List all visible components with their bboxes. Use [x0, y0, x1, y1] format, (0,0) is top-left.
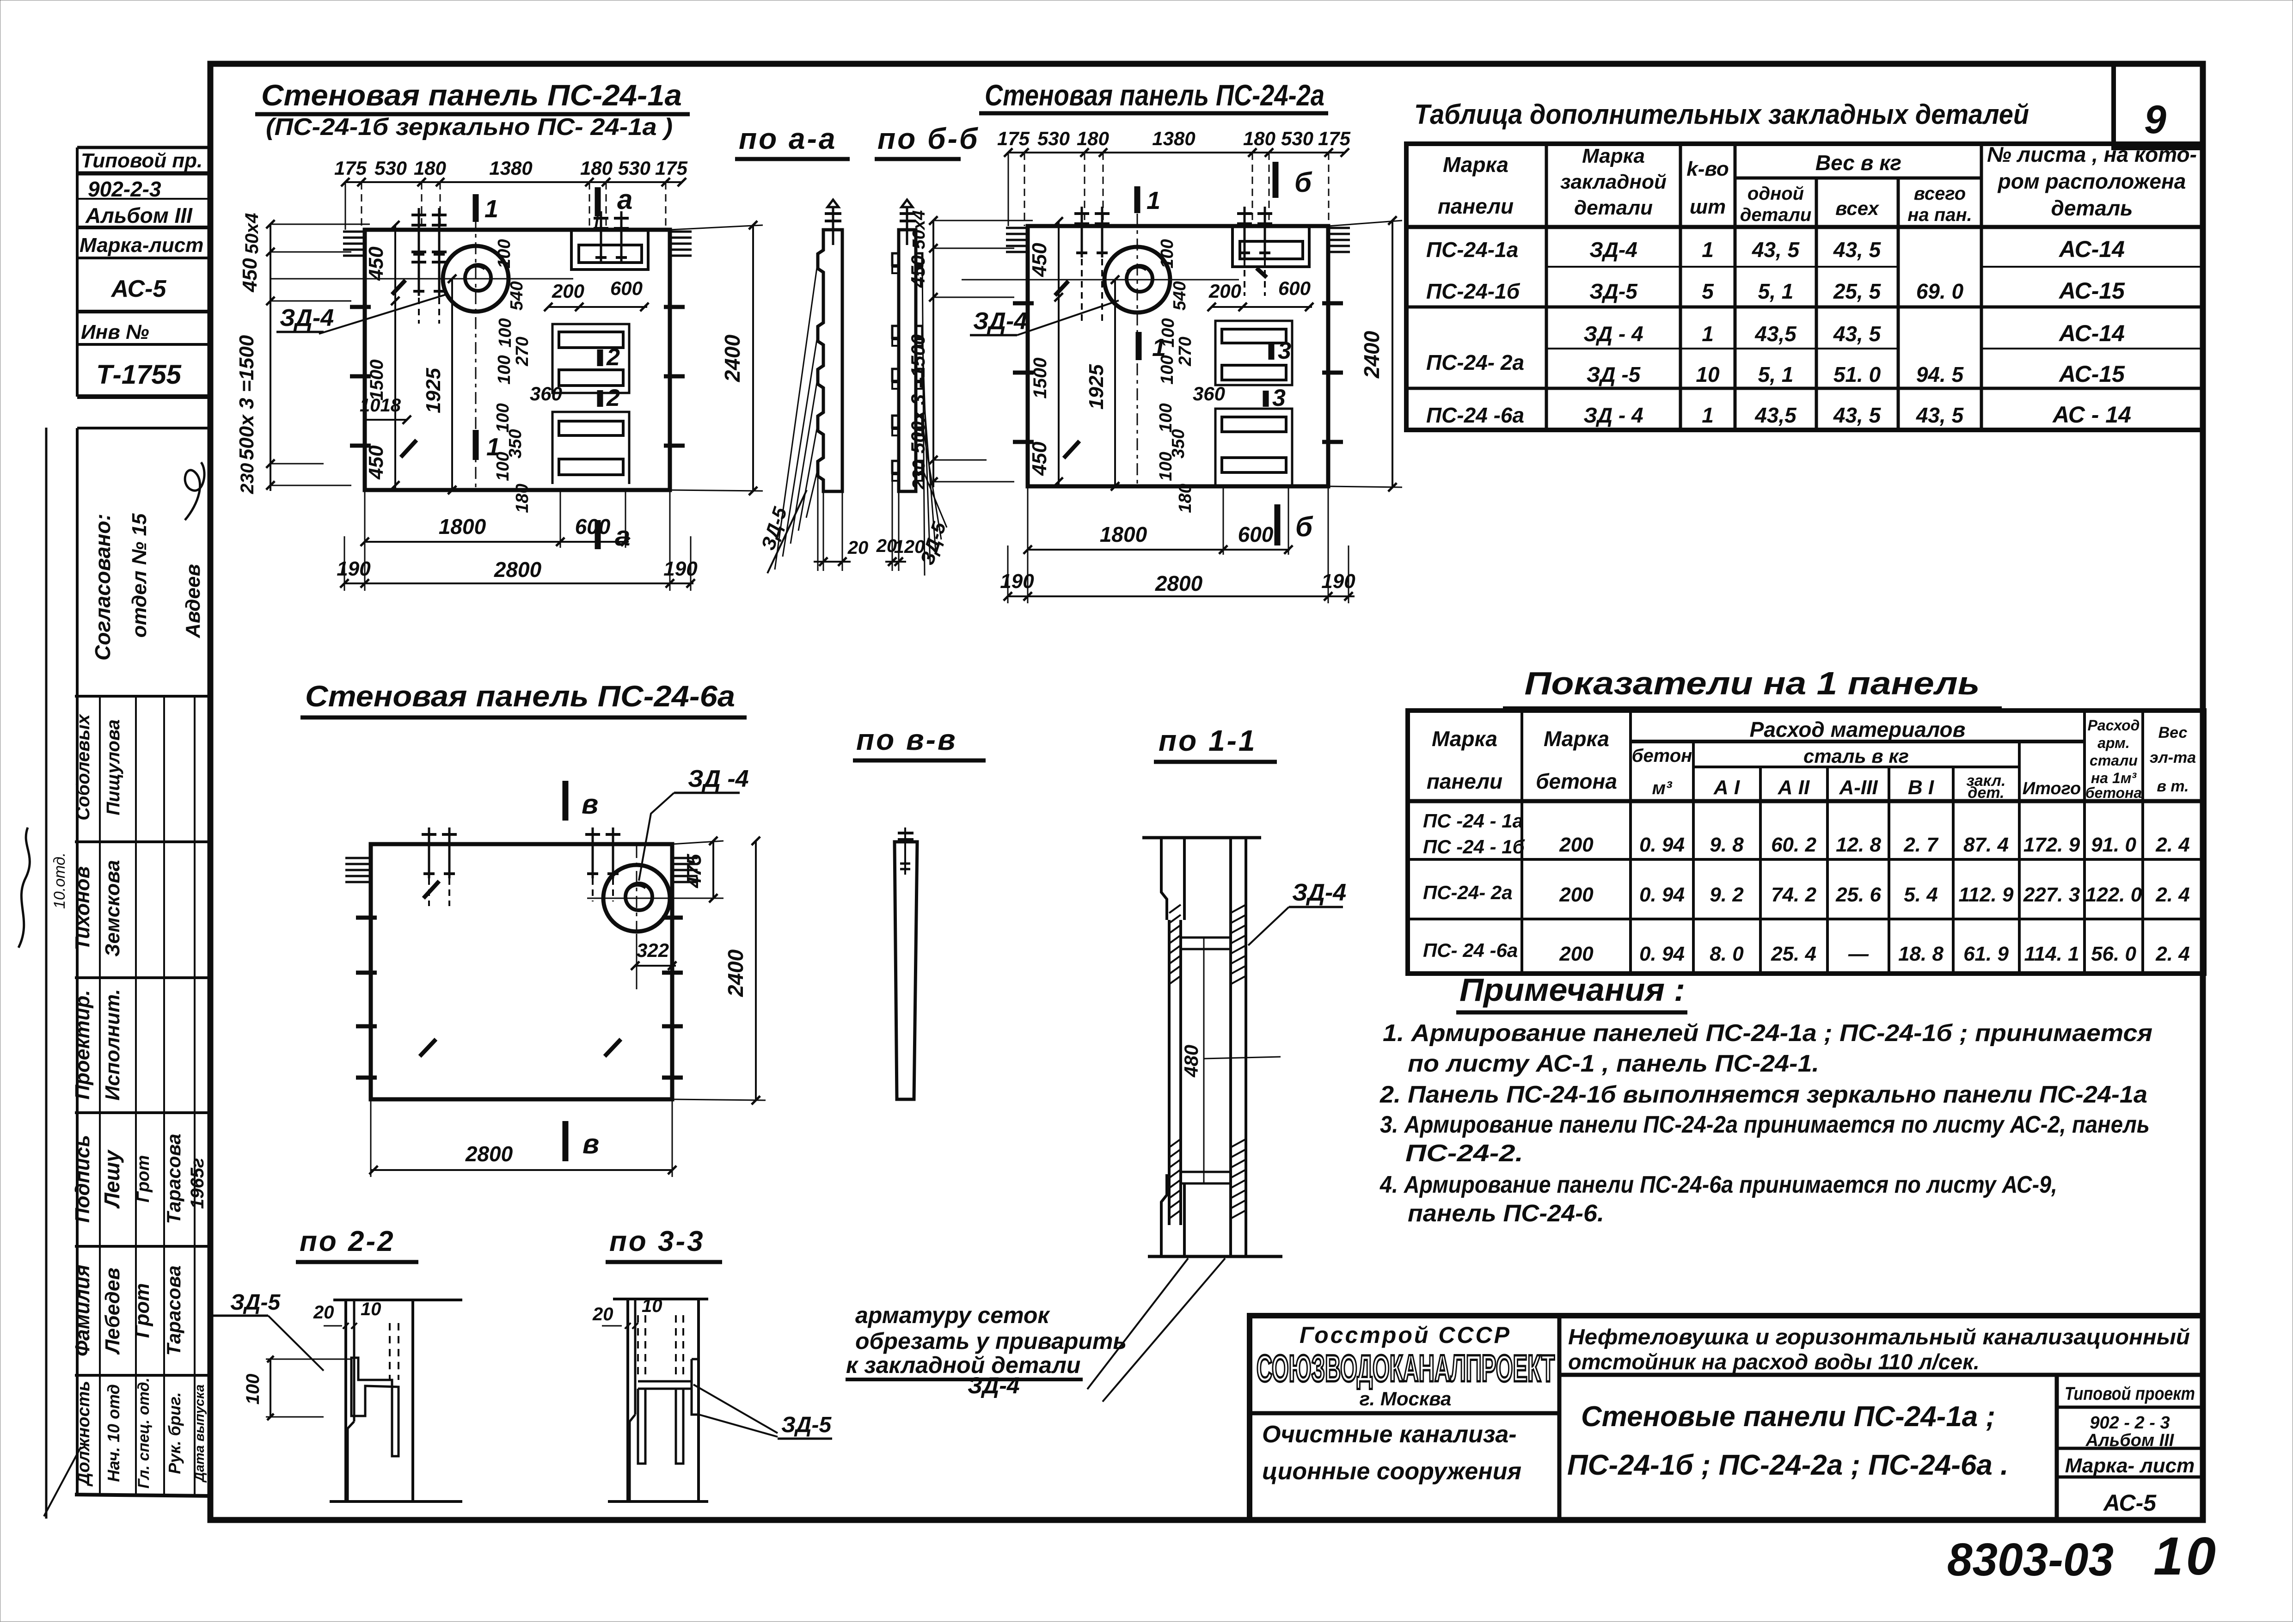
svg-text:А-III: А-III [1839, 776, 1878, 799]
svg-text:ЗД -4: ЗД -4 [688, 766, 749, 792]
svg-text:200: 200 [552, 280, 584, 302]
svg-text:ЗД-4: ЗД-4 [968, 1373, 1020, 1398]
svg-text:Марка: Марка [1582, 145, 1645, 167]
svg-text:190: 190 [337, 558, 371, 580]
svg-text:Грот: Грот [134, 1155, 153, 1203]
svg-text:100: 100 [493, 452, 513, 481]
svg-text:175: 175 [655, 157, 688, 179]
svg-text:панель ПС-24-6.: панель ПС-24-6. [1408, 1200, 1604, 1227]
svg-text:902-2-3: 902-2-3 [88, 177, 161, 201]
svg-text:43, 5: 43, 5 [1752, 238, 1800, 262]
svg-text:АС-5: АС-5 [110, 276, 167, 302]
svg-text:всех: всех [1835, 197, 1879, 219]
svg-text:270: 270 [1176, 337, 1195, 366]
svg-text:1925: 1925 [1085, 364, 1108, 410]
svg-text:по 3-3: по 3-3 [609, 1226, 705, 1257]
svg-text:8. 0: 8. 0 [1710, 943, 1744, 965]
svg-text:Примечания :: Примечания : [1459, 972, 1685, 1008]
svg-text:1800: 1800 [1100, 522, 1147, 546]
svg-text:322: 322 [637, 939, 669, 961]
svg-text:А II: А II [1778, 776, 1810, 799]
svg-text:360: 360 [1193, 383, 1225, 404]
svg-text:114. 1: 114. 1 [2024, 943, 2079, 965]
svg-text:Земскова: Земскова [101, 860, 124, 956]
svg-text:2800: 2800 [465, 1142, 513, 1166]
svg-text:230: 230 [237, 463, 258, 495]
svg-text:25, 5: 25, 5 [1833, 279, 1882, 303]
svg-text:эл-та: эл-та [2150, 749, 2196, 766]
svg-text:43,5: 43,5 [1754, 403, 1797, 427]
svg-text:по б-б: по б-б [877, 122, 980, 155]
svg-text:530: 530 [1281, 128, 1313, 149]
svg-text:Пищулова: Пищулова [103, 719, 123, 815]
svg-text:20: 20 [876, 536, 897, 556]
svg-text:деталь: деталь [2051, 196, 2133, 220]
svg-text:60. 2: 60. 2 [1771, 833, 1816, 856]
svg-text:18. 8: 18. 8 [1898, 943, 1944, 965]
svg-text:Согласовано:: Согласовано: [91, 514, 115, 661]
svg-text:Стеновая панель ПС-24-6а: Стеновая панель ПС-24-6а [305, 680, 735, 713]
svg-text:Стеновая панель ПС-24-1а: Стеновая панель ПС-24-1а [261, 79, 682, 112]
svg-text:180: 180 [414, 157, 446, 179]
svg-text:ПС- 24 -6а: ПС- 24 -6а [1423, 939, 1518, 961]
svg-text:200: 200 [1559, 833, 1594, 856]
svg-text:б: б [1294, 167, 1312, 198]
svg-text:Тихонов: Тихонов [71, 866, 94, 950]
svg-text:100: 100 [1156, 403, 1176, 432]
svg-text:ПС -24 - 1а: ПС -24 - 1а [1423, 810, 1523, 832]
svg-text:2. 4: 2. 4 [2155, 833, 2189, 856]
svg-text:по а-а: по а-а [739, 122, 837, 155]
svg-text:450: 450 [365, 246, 387, 281]
svg-text:540: 540 [507, 281, 527, 310]
svg-text:10: 10 [1696, 362, 1720, 386]
svg-text:ЗД-5: ЗД-5 [1589, 279, 1638, 303]
svg-text:43, 5: 43, 5 [1916, 403, 1964, 427]
svg-text:ПС -24 - 1б: ПС -24 - 1б [1423, 836, 1525, 858]
svg-text:200: 200 [1559, 883, 1594, 906]
svg-text:2400: 2400 [1360, 331, 1384, 379]
svg-text:ПС-24 -6а: ПС-24 -6а [1426, 403, 1524, 427]
svg-text:2. 4: 2. 4 [2155, 883, 2189, 906]
svg-text:43, 5: 43, 5 [1833, 238, 1882, 262]
svg-text:20: 20 [592, 1304, 613, 1324]
svg-text:ЗД-4: ЗД-4 [280, 305, 334, 331]
svg-text:540: 540 [1170, 281, 1189, 310]
svg-text:100: 100 [243, 1374, 263, 1405]
svg-text:арм.: арм. [2097, 735, 2129, 751]
svg-text:1: 1 [1702, 238, 1714, 262]
svg-text:270: 270 [513, 337, 532, 366]
svg-text:9. 8: 9. 8 [1710, 833, 1744, 856]
svg-text:1500: 1500 [1030, 358, 1050, 399]
svg-text:Альбом III: Альбом III [85, 203, 193, 227]
svg-text:20: 20 [313, 1302, 334, 1323]
svg-text:Стеновые панели ПС-24-1а ;: Стеновые панели ПС-24-1а ; [1581, 1401, 1995, 1433]
svg-text:175: 175 [334, 157, 367, 179]
svg-text:k-во: k-во [1686, 158, 1729, 180]
svg-text:600: 600 [610, 277, 643, 299]
svg-text:475: 475 [683, 854, 705, 889]
svg-text:10.отд.: 10.отд. [51, 852, 68, 909]
svg-text:м³: м³ [1652, 778, 1673, 798]
svg-text:Госстрой СССР: Госстрой СССР [1300, 1322, 1511, 1348]
svg-text:шт: шт [1690, 196, 1726, 218]
svg-text:360: 360 [530, 383, 562, 404]
svg-text:100: 100 [495, 239, 514, 268]
svg-text:СОЮЗВОДОКАНАЛПРОЕКТ: СОЮЗВОДОКАНАЛПРОЕКТ [1257, 1348, 1555, 1390]
svg-text:Марка: Марка [1544, 727, 1609, 751]
svg-text:2. 4: 2. 4 [2155, 943, 2189, 965]
svg-text:в: в [582, 789, 598, 820]
svg-text:50х4: 50х4 [242, 213, 262, 254]
svg-text:Тарасова: Тарасова [163, 1265, 184, 1355]
svg-text:(ПС-24-1б зеркально ПС- 24: (ПС-24-1б зеркально ПС- 24-1а ) [266, 114, 673, 141]
svg-text:180: 180 [1243, 128, 1275, 149]
svg-text:530: 530 [1037, 128, 1070, 149]
svg-text:94. 5: 94. 5 [1916, 362, 1964, 386]
svg-text:Инв №: Инв № [81, 321, 149, 343]
svg-text:Исполнит.: Исполнит. [101, 989, 124, 1100]
svg-text:ЗД-4: ЗД-4 [973, 308, 1027, 335]
svg-text:по в-в: по в-в [856, 723, 957, 756]
svg-text:450: 450 [365, 445, 387, 480]
svg-text:панели: панели [1427, 769, 1502, 793]
svg-text:АС-14: АС-14 [2058, 236, 2125, 262]
svg-text:А I: А I [1713, 776, 1740, 799]
svg-text:902 - 2 - 3: 902 - 2 - 3 [2090, 1413, 2170, 1433]
svg-text:отстойник на расход в: отстойник на расход воды 110 л/сек. [1568, 1349, 1980, 1374]
svg-text:Стеновая панель ПС-24-2а: Стеновая панель ПС-24-2а [985, 79, 1324, 112]
svg-text:одной: одной [1747, 184, 1804, 204]
svg-text:всего: всего [1914, 184, 1966, 204]
svg-text:Тарасова: Тарасова [163, 1134, 184, 1224]
svg-text:АС - 14: АС - 14 [2052, 402, 2131, 428]
svg-text:Соболевых: Соболевых [73, 713, 93, 820]
svg-text:530: 530 [374, 157, 407, 179]
svg-text:450: 450 [1028, 441, 1051, 476]
svg-text:20: 20 [847, 538, 869, 558]
svg-text:ром расположена: ром расположена [1997, 169, 2186, 193]
svg-text:600: 600 [575, 515, 611, 539]
svg-text:227. 3: 227. 3 [2023, 883, 2080, 906]
svg-text:1: 1 [1702, 322, 1714, 346]
svg-text:АС-14: АС-14 [2058, 320, 2125, 346]
svg-text:1: 1 [484, 195, 498, 223]
svg-text:25. 4: 25. 4 [1771, 943, 1816, 965]
svg-text:2: 2 [606, 385, 620, 411]
svg-text:в т.: в т. [2157, 778, 2189, 795]
svg-text:Вес в кг: Вес в кг [1815, 151, 1901, 175]
svg-text:180: 180 [580, 157, 613, 179]
svg-text:АС-5: АС-5 [2103, 1490, 2157, 1516]
svg-text:б: б [1295, 511, 1313, 542]
svg-text:к закладной детали: к закладной детали [846, 1352, 1080, 1378]
svg-text:1. Армирование панелей ПС-: 1. Армирование панелей ПС-24-1а ; ПС-24-… [1383, 1020, 2152, 1047]
svg-text:69. 0: 69. 0 [1916, 279, 1964, 303]
svg-text:Расход: Расход [2088, 717, 2140, 734]
svg-text:3: 3 [1278, 337, 1291, 364]
svg-text:дет.: дет. [1968, 784, 2004, 802]
svg-text:450: 450 [239, 258, 261, 293]
svg-text:2400: 2400 [723, 949, 748, 997]
svg-text:2: 2 [606, 344, 620, 371]
svg-text:Нач. 10 отд: Нач. 10 отд [104, 1384, 123, 1482]
svg-text:бетона: бетона [2085, 784, 2142, 801]
svg-text:ционные сооружения: ционные сооружения [1262, 1458, 1521, 1485]
svg-text:175: 175 [1318, 128, 1351, 149]
svg-text:ПС-24- 2а: ПС-24- 2а [1423, 882, 1513, 903]
svg-text:530: 530 [618, 157, 650, 179]
svg-text:Рук. бриг.: Рук. бриг. [165, 1392, 184, 1474]
svg-text:1: 1 [1146, 187, 1160, 214]
svg-text:стали: стали [2090, 752, 2138, 769]
svg-text:1965г: 1965г [187, 1158, 208, 1209]
svg-text:Должность: Должность [74, 1381, 93, 1487]
svg-text:Показатели на 1 панель: Показатели на 1 панель [1525, 665, 1980, 701]
svg-text:200: 200 [1208, 280, 1241, 302]
svg-text:56. 0: 56. 0 [2091, 943, 2136, 965]
svg-text:450: 450 [907, 255, 929, 288]
svg-text:В I: В I [1908, 776, 1934, 799]
svg-text:Типовой пр.: Типовой пр. [81, 149, 202, 172]
svg-text:51. 0: 51. 0 [1833, 362, 1881, 386]
svg-text:ПС-24-1б ; ПС-24-2а ; ПС-24: ПС-24-1б ; ПС-24-2а ; ПС-24-6а . [1567, 1449, 2008, 1481]
svg-text:87. 4: 87. 4 [1963, 833, 2009, 856]
svg-text:1925: 1925 [422, 368, 445, 413]
svg-text:200: 200 [1559, 943, 1594, 965]
svg-text:12. 8: 12. 8 [1836, 833, 1881, 856]
svg-text:Фамилия: Фамилия [71, 1265, 94, 1356]
svg-text:Лебедев: Лебедев [101, 1268, 124, 1355]
svg-text:600: 600 [1238, 522, 1274, 546]
svg-text:отдел № 15: отдел № 15 [128, 513, 151, 637]
svg-text:Подпись: Подпись [71, 1135, 94, 1223]
svg-text:по 1-1: по 1-1 [1159, 724, 1257, 757]
svg-text:ЗД -5: ЗД -5 [1587, 362, 1641, 386]
svg-text:10: 10 [642, 1296, 662, 1316]
svg-text:детали: детали [1574, 196, 1653, 219]
svg-text:10: 10 [361, 1299, 381, 1319]
svg-text:Т-1755: Т-1755 [96, 360, 182, 390]
svg-text:2. 7: 2. 7 [1903, 833, 1939, 856]
svg-text:Марка-лист: Марка-лист [80, 234, 203, 257]
svg-text:180: 180 [513, 484, 532, 513]
svg-text:43, 5: 43, 5 [1833, 403, 1882, 427]
svg-text:91. 0: 91. 0 [2091, 833, 2136, 856]
svg-text:панели: панели [1438, 194, 1514, 218]
svg-text:Проектир.: Проектир. [71, 990, 94, 1099]
svg-text:Расход материалов: Расход материалов [1750, 717, 1966, 742]
svg-text:Таблица дополнительных закладн: Таблица дополнительных закладных деталей [1414, 99, 2029, 130]
svg-text:1380: 1380 [1152, 128, 1195, 149]
svg-text:5, 1: 5, 1 [1758, 362, 1794, 386]
svg-text:600: 600 [1278, 277, 1311, 299]
svg-text:100: 100 [1159, 318, 1178, 347]
svg-text:№ листа , на кото-: № листа , на кото- [1987, 142, 2197, 166]
svg-text:5, 1: 5, 1 [1758, 279, 1794, 303]
svg-text:бетон: бетон [1632, 746, 1692, 766]
svg-text:2800: 2800 [1155, 571, 1203, 595]
svg-text:по 2-2: по 2-2 [300, 1226, 395, 1257]
svg-text:на 1м³: на 1м³ [2091, 770, 2137, 786]
svg-text:9: 9 [2144, 98, 2166, 142]
svg-text:190: 190 [1000, 570, 1034, 593]
svg-text:190: 190 [1321, 570, 1355, 593]
svg-text:100: 100 [1158, 239, 1177, 268]
svg-text:1500: 1500 [367, 360, 387, 401]
svg-text:Авдеев: Авдеев [182, 564, 204, 638]
svg-text:детали: детали [1740, 205, 1812, 225]
svg-text:АС-15: АС-15 [2058, 361, 2125, 387]
svg-text:190: 190 [663, 558, 698, 580]
svg-text:0. 94: 0. 94 [1639, 833, 1685, 856]
svg-text:2800: 2800 [494, 558, 542, 582]
svg-text:100: 100 [1156, 452, 1176, 481]
svg-text:Лешу: Лешу [100, 1149, 124, 1209]
svg-text:ЗД-4: ЗД-4 [1292, 879, 1346, 906]
svg-text:обрезать у приварить: обрезать у приварить [855, 1328, 1127, 1354]
svg-text:74. 2: 74. 2 [1771, 883, 1816, 906]
svg-text:1800: 1800 [439, 515, 486, 539]
svg-text:АС-15: АС-15 [2058, 278, 2125, 304]
svg-text:61. 9: 61. 9 [1963, 943, 2009, 965]
svg-text:бетона: бетона [1536, 769, 1617, 793]
svg-text:Альбом III: Альбом III [2085, 1431, 2175, 1450]
svg-text:на пан.: на пан. [1907, 205, 1972, 225]
svg-text:43, 5: 43, 5 [1833, 322, 1882, 346]
svg-text:1380: 1380 [489, 157, 532, 179]
svg-text:2. Панель ПС-24-1б выполня: 2. Панель ПС-24-1б выполняется зеркально… [1379, 1081, 2147, 1108]
svg-text:ПС-24-1б: ПС-24-1б [1426, 279, 1520, 303]
svg-text:25. 6: 25. 6 [1835, 883, 1881, 906]
svg-text:ЗД-5: ЗД-5 [781, 1413, 832, 1437]
svg-text:480: 480 [1180, 1045, 1202, 1078]
svg-text:ЗД-4: ЗД-4 [1589, 238, 1637, 262]
svg-text:3. Армирование панели ПС-24-2: 3. Армирование панели ПС-24-2а принимает… [1380, 1111, 2150, 1138]
svg-text:Марка: Марка [1443, 153, 1508, 177]
svg-text:2400: 2400 [720, 334, 744, 382]
svg-text:172. 9: 172. 9 [2023, 833, 2080, 856]
svg-text:сталь в кг: сталь в кг [1803, 745, 1909, 767]
svg-text:а: а [615, 521, 630, 552]
svg-text:112. 9: 112. 9 [1958, 883, 2014, 906]
svg-text:г. Москва: г. Москва [1360, 1388, 1452, 1410]
svg-text:ЗД-5: ЗД-5 [757, 504, 791, 553]
svg-text:9. 2: 9. 2 [1710, 883, 1744, 906]
svg-text:180: 180 [1176, 484, 1195, 513]
svg-text:Дата выпуска: Дата выпуска [192, 1385, 207, 1483]
svg-text:450: 450 [1028, 243, 1051, 277]
svg-text:5: 5 [1702, 279, 1714, 303]
svg-text:Итого: Итого [2023, 779, 2081, 798]
svg-text:Марка: Марка [1432, 727, 1497, 751]
svg-text:ПС-24-1а: ПС-24-1а [1426, 238, 1518, 262]
svg-text:в: в [582, 1128, 599, 1159]
svg-text:ЗД - 4: ЗД - 4 [1583, 322, 1643, 346]
svg-text:100: 100 [495, 355, 514, 384]
svg-text:5. 4: 5. 4 [1904, 883, 1937, 906]
svg-text:8303-03: 8303-03 [1947, 1534, 2114, 1586]
svg-text:175: 175 [997, 128, 1030, 149]
svg-text:0. 94: 0. 94 [1639, 943, 1685, 965]
svg-text:ПС-24- 2а: ПС-24- 2а [1426, 350, 1524, 374]
svg-text:3: 3 [1272, 385, 1286, 411]
svg-text:100: 100 [496, 318, 515, 347]
svg-text:ЗД-5: ЗД-5 [230, 1290, 281, 1315]
svg-text:закладной: закладной [1560, 171, 1667, 193]
svg-text:Очистные канализа-: Очистные канализа- [1262, 1421, 1517, 1448]
svg-text:1018: 1018 [360, 395, 401, 416]
svg-text:—: — [1848, 943, 1869, 965]
svg-text:10: 10 [2153, 1526, 2219, 1586]
svg-text:122. 0: 122. 0 [2085, 883, 2142, 906]
svg-text:Типовой проект: Типовой проект [2065, 1384, 2195, 1404]
svg-text:0. 94: 0. 94 [1639, 883, 1685, 906]
svg-text:арматуру сеток: арматуру сеток [855, 1302, 1050, 1328]
svg-text:ЗД - 4: ЗД - 4 [1583, 403, 1643, 427]
svg-text:Нефтеловушка и горизонтальный: Нефтеловушка и горизонтальный канализаци… [1568, 1324, 2190, 1349]
svg-text:4. Армирование панели ПС-24-: 4. Армирование панели ПС-24-6а принимает… [1379, 1171, 2057, 1198]
svg-text:Гл. спец. отд.: Гл. спец. отд. [135, 1378, 153, 1489]
svg-text:Марка- лист: Марка- лист [2065, 1454, 2195, 1477]
svg-text:Вес: Вес [2158, 724, 2188, 742]
svg-text:1: 1 [1702, 403, 1714, 427]
svg-text:100: 100 [493, 403, 513, 432]
svg-text:100: 100 [1158, 355, 1177, 384]
svg-text:500х 3 =1500: 500х 3 =1500 [235, 335, 258, 460]
svg-text:180: 180 [1077, 128, 1109, 149]
svg-text:по листу АС-1 , панель ПС-: по листу АС-1 , панель ПС-24-1. [1408, 1050, 1819, 1077]
svg-text:Грот: Грот [131, 1283, 153, 1338]
svg-text:43,5: 43,5 [1754, 322, 1797, 346]
svg-text:ПС-24-2.: ПС-24-2. [1405, 1140, 1523, 1167]
svg-text:а: а [617, 184, 632, 215]
